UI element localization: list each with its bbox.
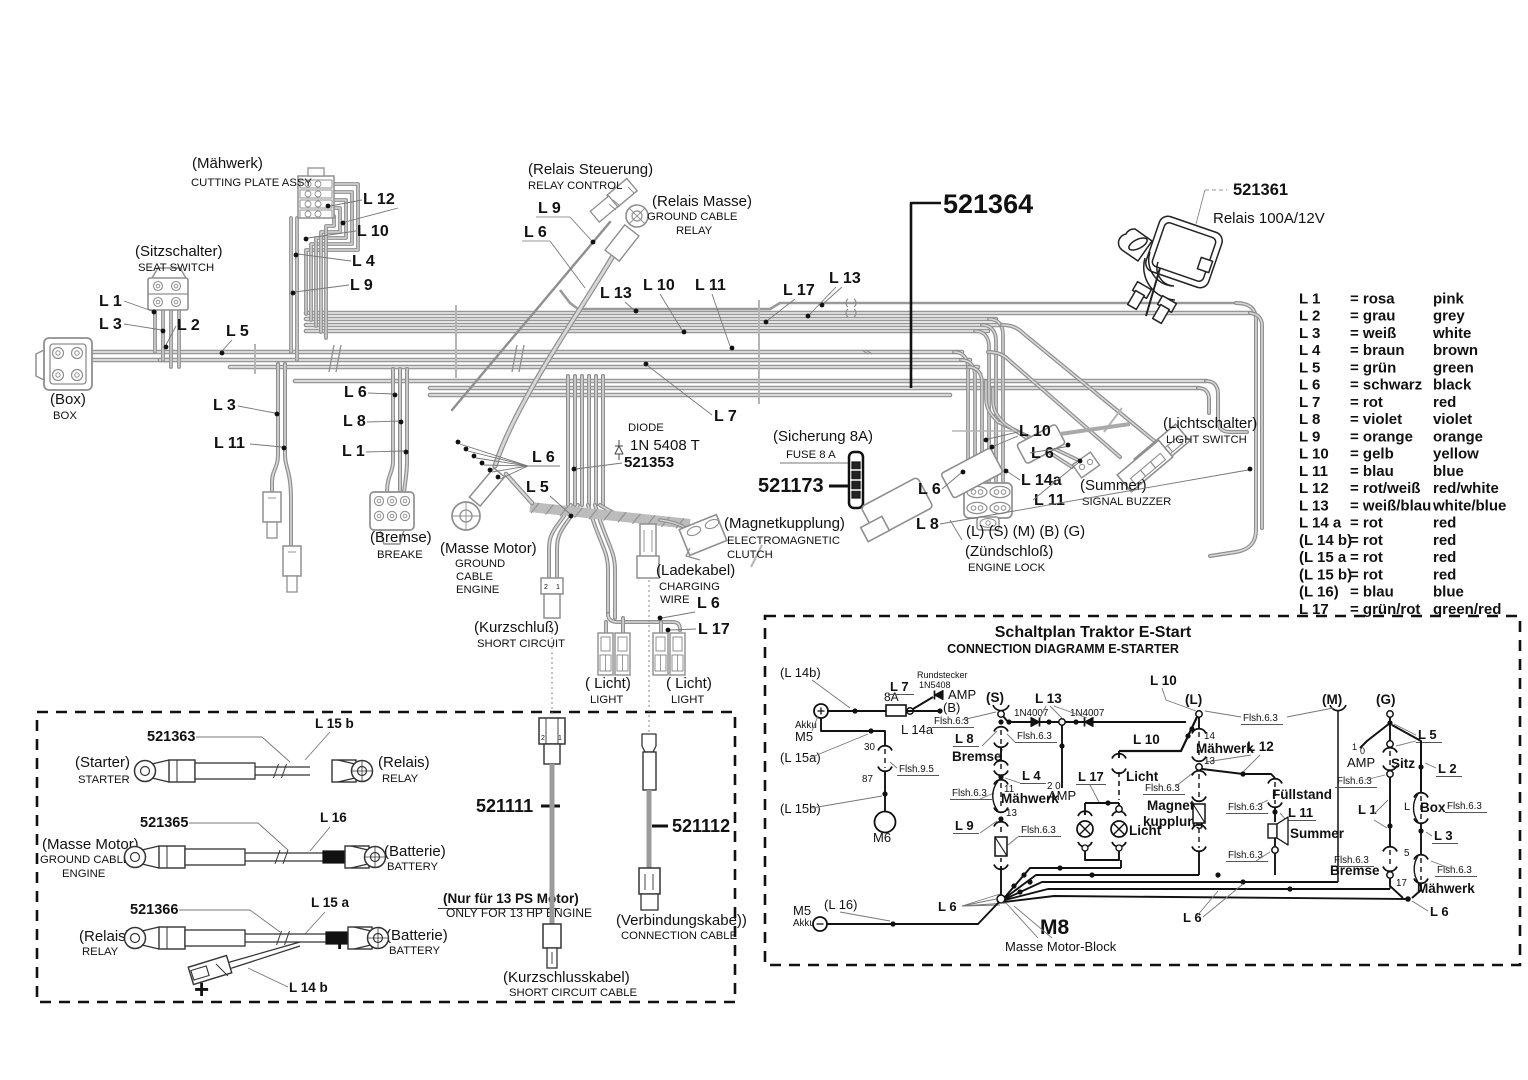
svg-text:RELAY: RELAY [82,946,119,958]
svg-text:= weiß/blau: = weiß/blau [1350,497,1431,514]
wire battery down to starter contact [821,718,885,745]
svg-text:L 6: L 6 [1430,904,1449,919]
svg-text:= rot: = rot [1350,515,1383,532]
svg-text:87: 87 [862,774,873,785]
dashed enclosure schematic [765,616,1520,965]
svg-text:Flsh.6.3: Flsh.6.3 [1228,802,1263,813]
svg-text:L 11: L 11 [214,435,245,452]
cable branch L14b [218,942,300,966]
sitz contact [1387,741,1393,747]
svg-text:L 17: L 17 [1078,769,1104,784]
connector ground relay ring [626,205,648,227]
connector magnetic clutch [679,515,727,556]
svg-text:Relais 100A/12V: Relais 100A/12V [1213,210,1325,227]
svg-text:Flsh.6.3: Flsh.6.3 [1337,776,1372,787]
svg-text:(Relais): (Relais) [378,754,430,771]
wire main low bundle [295,379,1206,384]
svg-text:(L) (S) (M) (B) (G): (L) (S) (M) (B) (G) [966,523,1085,540]
svg-text:= rot: = rot [1350,566,1383,583]
cable ring terminal right [354,927,371,949]
wire braided rope to clutch [530,507,690,524]
svg-text:(M): (M) [1322,692,1342,707]
svg-text:Bremse: Bremse [952,749,1002,764]
svg-text:AMP: AMP [1347,755,1375,770]
svg-text:30: 30 [864,742,875,753]
svg-text:L 8: L 8 [955,731,974,746]
svg-text:2: 2 [544,584,548,591]
svg-text:(Masse Motor): (Masse Motor) [440,540,537,557]
svg-text:L 6: L 6 [1183,910,1202,925]
svg-text:(B): (B) [943,700,960,715]
thick wire L10 from L node [1119,717,1197,751]
svg-text:M8: M8 [1040,916,1069,939]
svg-text:( Licht): ( Licht) [666,675,712,692]
svg-text:RELAY CONTROL: RELAY CONTROL [528,180,622,192]
svg-text:grey: grey [1433,308,1465,325]
svg-text:red: red [1433,394,1456,411]
svg-text:L 12: L 12 [1247,739,1274,754]
svg-text:L 10: L 10 [1299,446,1329,463]
svg-text:521361: 521361 [1233,181,1288,199]
wire S row with diodes [1003,716,1186,722]
svg-text:L 1: L 1 [99,293,122,310]
svg-text:( Licht): ( Licht) [585,675,631,692]
wire clutch feeders [660,520,692,532]
svg-text:521363: 521363 [147,729,195,745]
svg-text:= weiß: = weiß [1350,325,1396,342]
cable right crimp [332,760,356,782]
svg-text:L 6: L 6 [524,224,547,241]
svg-text:L 1: L 1 [342,443,365,460]
svg-text:L 12: L 12 [363,191,395,208]
svg-text:+: + [332,927,347,957]
svg-text:Schaltplan Traktor E-Start: Schaltplan Traktor E-Start [995,624,1192,641]
svg-text:blue: blue [1433,584,1464,601]
svg-text:= gelb: = gelb [1350,446,1394,463]
svg-text:= rot: = rot [1350,549,1383,566]
svg-text:L 17: L 17 [783,282,815,299]
svg-text:1: 1 [1352,742,1357,752]
svg-text:(L 15a): (L 15a) [780,750,821,765]
inline connector marks [846,299,848,307]
svg-text:CLUTCH: CLUTCH [727,549,773,561]
svg-text:(L 14 b): (L 14 b) [1299,532,1352,549]
svg-text:(G): (G) [1376,692,1396,707]
svg-text:(Magnetkupplung): (Magnetkupplung) [724,515,845,532]
svg-text:Flsh.6.3: Flsh.6.3 [1017,731,1052,742]
connector cutting plate assy [298,176,334,218]
battery plus M5 [814,704,828,718]
svg-text:STARTER: STARTER [78,774,130,786]
wire ignition lock verticals [954,352,968,483]
svg-text:(Kurzschluß): (Kurzschluß) [474,619,559,636]
svg-text:= rot: = rot [1350,532,1383,549]
svg-text:L 1: L 1 [1358,802,1377,817]
svg-text:L 5: L 5 [226,323,249,340]
fuse 8A capsule [849,452,863,508]
svg-text:Flsh.6.3: Flsh.6.3 [952,788,987,799]
svg-text:L 4: L 4 [1022,768,1041,783]
motor M6 [884,794,886,812]
svg-text:FUSE 8 A: FUSE 8 A [786,449,836,461]
svg-text:(Starter): (Starter) [75,754,130,771]
break slash marks [329,345,334,372]
connector Kurzschluss [541,578,563,594]
cable shaft [245,852,323,854]
fuse holder diagonal assembly [861,424,1130,542]
svg-text:L 3: L 3 [1299,325,1320,342]
svg-text:521366: 521366 [130,902,178,918]
svg-text:violet: violet [1433,411,1472,428]
svg-text:LIGHT: LIGHT [671,694,704,706]
svg-text:RELAY: RELAY [676,225,713,237]
connector ignition lock [964,483,1012,518]
svg-text:AMP: AMP [1048,788,1076,803]
svg-text:M5: M5 [793,903,811,918]
svg-text:+: + [194,974,209,1004]
wire main top bundle [306,311,1250,316]
wire Fuellstand branch [272,364,278,492]
svg-text:521353: 521353 [624,454,674,471]
svg-text:L 15 b: L 15 b [315,716,354,731]
connector Fuellstand blade A [263,492,281,522]
svg-text:Bremse: Bremse [1330,863,1380,878]
G amp branch [1360,723,1390,748]
svg-text:L 4: L 4 [352,253,375,270]
svg-text:Flsh.6.3: Flsh.6.3 [1437,865,1472,876]
cable ring terminal right [338,760,355,782]
svg-text:Summer: Summer [1290,826,1345,841]
cable right crimp [323,851,345,863]
svg-text:GROUND: GROUND [455,558,505,570]
wire Maehwerk left pair [289,218,293,352]
svg-text:Flsh.6.3: Flsh.6.3 [1021,825,1056,836]
svg-text:L 4: L 4 [1299,342,1321,359]
svg-text:L 1: L 1 [1299,290,1320,307]
svg-text:red/white: red/white [1433,480,1499,497]
wire relay control diagonal [452,222,610,410]
svg-text:(L 15 a: (L 15 a [1299,549,1347,566]
wire summer diagonal pair [986,381,1078,460]
svg-text:1: 1 [558,735,562,742]
svg-text:Rundstecker: Rundstecker [917,670,968,680]
svg-text:L 13: L 13 [1035,691,1062,706]
svg-text:L 13: L 13 [1299,497,1329,514]
svg-text:= blau: = blau [1350,584,1394,601]
svg-text:= rot: = rot [1350,394,1383,411]
wire light switch diagonal pair upper [1002,325,1158,444]
svg-text:(Masse Motor): (Masse Motor) [42,836,139,853]
svg-text:BREAKE: BREAKE [377,549,423,561]
svg-text:brown: brown [1433,342,1478,359]
svg-text:521364: 521364 [943,189,1033,219]
wire L to Fuellstand [1202,769,1275,778]
svg-text:(L 16): (L 16) [824,897,857,912]
svg-text:L 9: L 9 [955,818,974,833]
svg-text:GROUND CABLE: GROUND CABLE [647,211,738,223]
svg-text:(Batterie): (Batterie) [386,927,448,944]
svg-text:L 5: L 5 [1299,359,1320,376]
svg-text:M6: M6 [873,830,891,845]
svg-text:= blau: = blau [1350,463,1394,480]
wire Maehwerk feeder nest [306,184,358,314]
svg-text:(Kurzschlusskabel): (Kurzschlusskabel) [503,969,630,986]
fuse in S column [995,837,1007,856]
svg-text:BATTERY: BATTERY [387,861,439,873]
svg-text:CABLE: CABLE [456,571,494,583]
svg-text:L 8: L 8 [343,413,366,430]
dashed enclosure bottom left [37,712,735,1002]
svg-text:(Batterie): (Batterie) [384,843,446,860]
svg-text:red: red [1433,515,1456,532]
svg-text:L 3: L 3 [1434,828,1453,843]
svg-text:Magnet-: Magnet- [1147,798,1199,813]
svg-text:L 8: L 8 [1299,411,1320,428]
wire Kurzschluss feeder [549,505,571,578]
svg-text:red: red [1433,566,1456,583]
svg-text:(Sicherung 8A): (Sicherung 8A) [773,428,873,445]
svg-text:L 6: L 6 [532,449,555,466]
svg-text:13: 13 [1006,808,1017,819]
svg-text:1N5408: 1N5408 [919,680,951,690]
wire ground cable engine stub [506,474,532,503]
svg-text:red: red [1433,549,1456,566]
svg-text:Mähwerk: Mähwerk [1196,741,1254,756]
wire charging cable feeder [600,505,646,522]
svg-text:(Relais): (Relais) [79,928,131,945]
svg-text:(S): (S) [986,690,1004,705]
svg-text:= braun: = braun [1350,342,1405,359]
svg-text:LIGHT: LIGHT [590,694,623,706]
cable right crimp [326,932,348,944]
svg-text:(Sitzschalter): (Sitzschalter) [135,243,223,260]
svg-text:1: 1 [556,584,560,591]
cable tie marks [254,344,256,374]
svg-text:L 10: L 10 [1150,673,1177,688]
svg-text:white: white [1432,325,1471,342]
G right branch to box [1392,725,1421,792]
svg-text:CONNECTION DIAGRAMM E-STARTER: CONNECTION DIAGRAMM E-STARTER [947,642,1179,656]
svg-text:ENGINE: ENGINE [456,584,500,596]
svg-text:GROUND CABLE: GROUND CABLE [40,854,131,866]
svg-text:L 14a: L 14a [901,722,934,737]
svg-text:L 10: L 10 [1019,423,1051,440]
wire battery to fuse [828,710,886,712]
svg-text:L 9: L 9 [1299,428,1320,445]
connector Fuellstand blade B [283,546,301,576]
svg-text:L 10: L 10 [1133,732,1160,747]
M8 ground node and buses [997,895,1005,903]
svg-text:= rosa: = rosa [1350,290,1395,307]
svg-text:L 16: L 16 [320,810,347,825]
svg-text:L 11: L 11 [1288,805,1313,820]
svg-text:Masse Motor-Block: Masse Motor-Block [1005,939,1117,954]
wire ground cable relay diagonal [495,254,614,466]
svg-text:Box: Box [1420,800,1446,815]
svg-text:orange: orange [1433,428,1483,445]
svg-text:Flsh.9.5: Flsh.9.5 [899,764,934,775]
svg-text:Flsh.6.3: Flsh.6.3 [1447,801,1482,812]
svg-text:= grün: = grün [1350,359,1396,376]
connector signal buzzer [1072,452,1099,478]
svg-text:(L 16): (L 16) [1299,584,1339,601]
svg-text:ENGINE LOCK: ENGINE LOCK [968,562,1046,574]
svg-text:CUTTING PLATE ASSY: CUTTING PLATE ASSY [191,177,312,189]
svg-text:(Ladekabel): (Ladekabel) [656,562,735,579]
svg-text:SIGNAL BUZZER: SIGNAL BUZZER [1082,496,1171,508]
cable shaft [245,933,326,935]
connector charging wire [640,524,656,558]
svg-text:521112: 521112 [672,816,730,836]
svg-text:SHORT CIRCUIT CABLE: SHORT CIRCUIT CABLE [509,987,638,999]
svg-text:(Relais Masse): (Relais Masse) [652,193,752,210]
svg-text:CONNECTION CABLE: CONNECTION CABLE [621,930,738,942]
wire Bremse branch [387,369,393,492]
cable ring terminal right [351,846,368,868]
connector Box [44,338,92,390]
svg-text:L 10: L 10 [643,277,675,294]
svg-text:pink: pink [1433,290,1464,307]
svg-text:SEAT SWITCH: SEAT SWITCH [138,262,214,274]
svg-text:(L): (L) [1185,692,1202,707]
svg-text:L 2: L 2 [1299,308,1320,325]
svg-text:= violet: = violet [1350,411,1402,428]
svg-text:L 2: L 2 [1438,761,1457,776]
svg-text:L 6: L 6 [918,481,941,498]
svg-text:L 3: L 3 [213,397,236,414]
wire seat switch feeders [153,308,157,352]
svg-text:(Verbindungskabe)): (Verbindungskabe)) [616,912,747,929]
svg-text:CHARGING: CHARGING [659,581,720,593]
svg-text:ELECTROMAGNETIC: ELECTROMAGNETIC [727,535,840,547]
wire L13 thin top run [560,290,1236,309]
licht switch dashed to L10 wire [1116,806,1122,812]
svg-text:L 6: L 6 [344,384,367,401]
wire central bundle verticals [566,376,570,505]
svg-text:blue: blue [1433,463,1464,480]
svg-text:M5: M5 [795,729,813,744]
svg-text:(Zündschloß): (Zündschloß) [965,543,1053,560]
svg-text:L 14 a: L 14 a [1299,515,1342,532]
svg-text:L 6: L 6 [697,595,720,612]
svg-text:ENGINE: ENGINE [62,868,106,880]
svg-text:L 17: L 17 [698,621,730,638]
connector seat switch [148,278,188,310]
svg-text:(Box): (Box) [50,391,86,408]
svg-text:red: red [1433,532,1456,549]
svg-text:Flsh.6.3: Flsh.6.3 [1145,783,1180,794]
svg-text:521365: 521365 [140,815,188,831]
svg-text:L 3: L 3 [99,316,122,333]
svg-text:= orange: = orange [1350,428,1413,445]
svg-text:green: green [1433,359,1474,376]
svg-text:= schwarz: = schwarz [1350,377,1422,394]
svg-text:Mähwerk: Mähwerk [1417,881,1475,896]
svg-text:Flsh.6.3: Flsh.6.3 [1243,713,1278,724]
svg-text:(Summer): (Summer) [1080,477,1147,494]
cable ring terminal left [125,928,146,949]
connector relay control [607,179,637,208]
connection cable 521112 [652,825,668,828]
svg-text:L 9: L 9 [538,200,561,217]
svg-text:L 8: L 8 [916,516,939,533]
svg-text:L 14a: L 14a [1021,472,1062,489]
svg-text:L 2: L 2 [177,317,200,334]
svg-text:Füllstand: Füllstand [1272,787,1332,802]
svg-text:521173: 521173 [758,475,824,497]
svg-text:(L 14b): (L 14b) [780,665,821,680]
svg-text:(Bremse): (Bremse) [370,529,432,546]
svg-text:BATTERY: BATTERY [389,945,441,957]
summer speaker [1274,808,1276,822]
wire low bundle right ends [1206,381,1247,432]
svg-text:RELAY: RELAY [382,773,419,785]
svg-text:DIODE: DIODE [628,422,664,434]
svg-text:L 7: L 7 [1299,394,1320,411]
wire light pair links [608,614,680,630]
wire main mid bundle [88,350,962,355]
svg-text:L 11: L 11 [695,277,726,294]
svg-text:(L 15 b): (L 15 b) [1299,566,1352,583]
node B [906,710,940,712]
svg-text:Flsh.6.3: Flsh.6.3 [934,716,969,727]
part number 521364 bracket [911,203,941,388]
svg-text:L 13: L 13 [600,285,632,302]
svg-text:WIRE: WIRE [660,594,690,606]
connector ground cable engine ring [469,468,504,506]
svg-text:L 6: L 6 [938,899,957,914]
svg-text:(L 15b): (L 15b) [780,801,821,816]
svg-text:L 9: L 9 [350,277,373,294]
svg-text:L 6: L 6 [1031,445,1054,462]
svg-text:17: 17 [1396,878,1407,889]
svg-text:yellow: yellow [1433,446,1479,463]
wire far right loop [1210,303,1256,556]
svg-text:1N4007: 1N4007 [1014,708,1048,719]
svg-text:Akku: Akku [793,918,815,929]
cable ring terminal left [125,847,146,868]
svg-text:(Relais Steuerung): (Relais Steuerung) [528,161,653,178]
svg-text:L 6: L 6 [1299,377,1320,394]
connector Bremse [370,492,414,530]
part relay 521361 [1205,189,1227,191]
svg-text:5: 5 [1404,848,1410,859]
svg-text:L 14 b: L 14 b [289,980,328,995]
wire minus to M8 [827,902,999,924]
cable ring terminal left [135,761,156,782]
AMP 20 branch [1061,725,1063,788]
wire light feeders [588,505,608,614]
svg-text:(Mähwerk): (Mähwerk) [192,155,263,172]
svg-text:L: L [1404,801,1410,813]
connector light switch shells [1134,424,1190,476]
connector light terminals [598,633,613,675]
svg-text:(Lichtschalter): (Lichtschalter) [1163,415,1257,432]
svg-text:L 12: L 12 [1299,480,1329,497]
svg-text:Licht: Licht [1126,769,1159,784]
svg-text:black: black [1433,377,1472,394]
svg-text:L 7: L 7 [890,679,909,694]
svg-text:L 11: L 11 [1299,463,1328,480]
svg-text:= rot/weiß: = rot/weiß [1350,480,1420,497]
svg-text:L 15 a: L 15 a [311,895,350,910]
svg-text:L 7: L 7 [714,408,737,425]
svg-text:= grau: = grau [1350,308,1395,325]
svg-text:L 13: L 13 [829,270,861,287]
svg-text:521111: 521111 [476,796,533,816]
cable shaft [255,766,310,768]
svg-text:(Nur für 13 PS Motor): (Nur für 13 PS Motor) [443,891,579,906]
